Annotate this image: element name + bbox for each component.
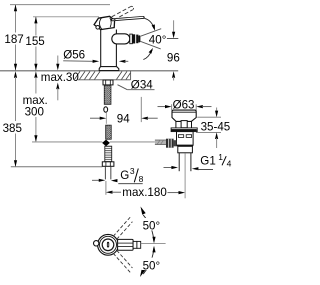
dimension line 155 vertical [35, 17, 37, 36]
top view: swing dashed lines upper [113, 217, 132, 272]
svg-text:max.180: max.180 [122, 186, 166, 199]
extension line top for 187 [10, 4, 110, 6]
pop-up waste: dimension diam 63 [171, 104, 173, 110]
max.300 dimension [34, 71, 37, 78]
flexible hose lower braid [106, 125, 112, 139]
svg-text:1: 1 [218, 152, 223, 162]
svg-text:G1: G1 [200, 154, 215, 167]
top view: 50deg arc upper [143, 215, 154, 242]
waste plug cap [172, 110, 196, 121]
svg-text:155: 155 [25, 35, 44, 48]
waste upper body with overflow slots [177, 132, 194, 146]
G1 1/4 dimension and label [164, 167, 173, 169]
svg-text:187: 187 [4, 33, 23, 46]
flexible hose upper braid [104, 85, 111, 104]
deck bottom line [78, 79, 131, 81]
top view: centerline [141, 243, 166, 245]
waste neck [175, 121, 177, 128]
faucet centerline extension [105, 113, 107, 124]
max.180 dimension [105, 181, 107, 195]
svg-text:385: 385 [3, 122, 22, 135]
waste coupling box [178, 146, 193, 153]
svg-text:3: 3 [130, 166, 135, 176]
svg-text:40°: 40° [149, 34, 167, 47]
spout [112, 34, 130, 44]
waste side inlet pipe [155, 140, 166, 145]
svg-text:300: 300 [25, 106, 44, 119]
lever raised position (dashed) [112, 6, 134, 20]
threaded hose end [105, 146, 112, 162]
hose end loop [104, 107, 108, 112]
dimension 96 [167, 38, 178, 40]
40 degree arc arrows [144, 18, 154, 29]
junction diamond [102, 140, 110, 147]
svg-text:max.30: max.30 [41, 71, 79, 84]
svg-text:8: 8 [139, 174, 144, 184]
top view: faucet body circles [98, 234, 119, 255]
top view: lever [118, 239, 134, 250]
aerator rings [130, 34, 133, 44]
dimension 94 [140, 97, 142, 122]
top view: side knob circle [94, 241, 99, 246]
svg-text:94: 94 [117, 113, 130, 126]
extension line top for 155 [33, 16, 99, 18]
svg-text:4: 4 [227, 159, 232, 169]
dimension line 187 vertical [15, 5, 17, 33]
G3/8 nipple [104, 166, 106, 179]
deck top line [0, 70, 178, 72]
waste flange [171, 128, 197, 132]
supply reference line (gray) [32, 141, 102, 143]
mounting nut under deck [103, 80, 113, 85]
svg-text:Ø56: Ø56 [63, 49, 85, 62]
deck hatching [75, 71, 131, 79]
hose end nut [102, 162, 114, 167]
spray cone lines [141, 29, 162, 37]
top view: 50deg arc lower [143, 247, 154, 274]
label 50deg lower [142, 258, 162, 270]
cartridge cap / handle hub [94, 16, 115, 29]
waste tailpipe [178, 153, 180, 171]
waste inlet nut [166, 139, 174, 148]
label 50deg upper [142, 218, 162, 230]
dimension 35-45 [197, 116, 221, 118]
lever handle [112, 17, 143, 19]
svg-text:96: 96 [167, 52, 180, 65]
385 bottom reference line [11, 166, 103, 168]
faucet body [99, 29, 119, 71]
G3/8 dimension and label [92, 179, 100, 181]
svg-text:50°: 50° [143, 219, 161, 232]
svg-text:50°: 50° [143, 260, 161, 273]
faucet base flange [99, 67, 119, 71]
waste body bottom band [177, 145, 194, 147]
small knob on cap [96, 26, 100, 30]
svg-text:G: G [120, 169, 129, 182]
max.30 dimension (deck thickness) [57, 56, 59, 65]
waste stem box [181, 121, 187, 128]
svg-text:35-45: 35-45 [201, 121, 231, 134]
385 dimension arrows at deck [14, 71, 17, 78]
